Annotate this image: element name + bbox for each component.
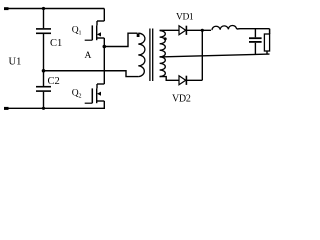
svg-text:C2: C2	[48, 76, 60, 87]
svg-text:VD2: VD2	[172, 94, 191, 105]
svg-text:A: A	[85, 51, 92, 61]
svg-text:VD1: VD1	[176, 13, 194, 23]
svg-text:C1: C1	[50, 38, 62, 49]
svg-text:U1: U1	[9, 56, 22, 67]
svg-text:2: 2	[79, 94, 82, 100]
svg-text:1: 1	[79, 31, 82, 37]
